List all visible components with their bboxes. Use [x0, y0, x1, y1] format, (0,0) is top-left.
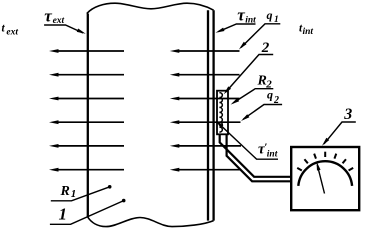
- svg-text:1: 1: [274, 15, 279, 25]
- svg-text:ext: ext: [53, 16, 65, 26]
- svg-text:t: t: [2, 23, 6, 35]
- svg-text:τ: τ: [44, 7, 52, 26]
- svg-text:ext: ext: [6, 28, 18, 38]
- svg-text:q: q: [267, 87, 273, 101]
- svg-text:int: int: [267, 150, 278, 160]
- svg-text:τ: τ: [237, 6, 245, 25]
- svg-text:3: 3: [343, 106, 352, 123]
- svg-text:R: R: [60, 184, 70, 199]
- svg-text:2: 2: [273, 95, 279, 106]
- svg-text:2: 2: [261, 40, 270, 56]
- svg-text:int: int: [303, 27, 314, 37]
- svg-text:1: 1: [59, 205, 68, 224]
- svg-text:1: 1: [71, 188, 77, 200]
- svg-text:q: q: [267, 8, 273, 22]
- svg-text:int: int: [245, 15, 256, 25]
